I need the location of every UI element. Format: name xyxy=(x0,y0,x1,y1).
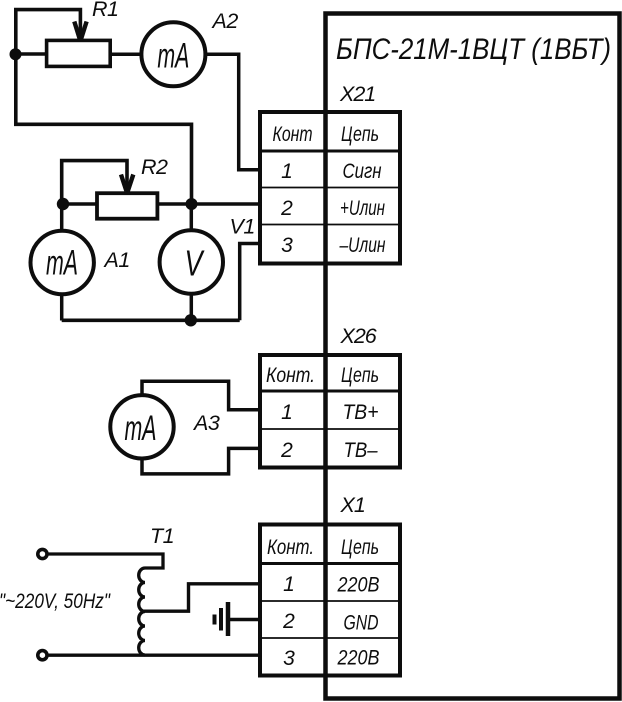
X21 net Сигн xyxy=(343,160,382,183)
X1 pin 3 xyxy=(283,647,295,670)
wire to X21 pin3 xyxy=(240,244,262,321)
wire R1 right lead xyxy=(110,53,142,57)
connector label X26 xyxy=(340,324,377,348)
wire R1 left lead xyxy=(14,52,46,56)
svg-text:Конт: Конт xyxy=(273,123,313,146)
device title БПС-21М-1ВЦТ (1ВБТ) xyxy=(336,33,611,66)
X1 net 220В xyxy=(337,574,380,597)
X21 pin 1 xyxy=(281,160,293,183)
svg-text:БПС-21М-1ВЦТ (1ВБТ): БПС-21М-1ВЦТ (1ВБТ) xyxy=(336,33,611,66)
wire ground to X1 pin2 xyxy=(228,618,262,622)
wire node C to X21 pin2 xyxy=(192,202,263,206)
svg-text:Цепь: Цепь xyxy=(341,364,379,387)
label A1 xyxy=(103,248,130,272)
svg-text:"~220V, 50Hz": "~220V, 50Hz" xyxy=(0,590,111,613)
label T1 xyxy=(150,524,174,548)
X1 net 220В row3 xyxy=(337,647,380,670)
connector label X1 xyxy=(340,493,365,517)
wire R2 wiper feed xyxy=(62,161,127,204)
connector table X26 xyxy=(260,355,400,468)
wire A1 top lead xyxy=(60,204,64,232)
wire A2 to X21 pin1 xyxy=(205,54,262,170)
wire bottom terminal to X1 pin3 xyxy=(47,654,262,657)
svg-text:3: 3 xyxy=(283,647,295,670)
X26 pin 2 xyxy=(280,439,293,462)
svg-text:2: 2 xyxy=(282,610,295,633)
label R1 xyxy=(92,0,118,21)
label A2 xyxy=(211,9,239,33)
wire A1 bottom lead xyxy=(60,293,64,321)
svg-text:R1: R1 xyxy=(92,0,118,21)
resistor R2 xyxy=(97,193,157,219)
connector label X21 xyxy=(339,82,375,106)
svg-text:mA: mA xyxy=(157,36,189,75)
resistor R1 xyxy=(47,40,111,66)
svg-text:Сигн: Сигн xyxy=(343,160,382,183)
X21 header Конт xyxy=(273,123,313,146)
svg-text:ТВ–: ТВ– xyxy=(344,439,378,462)
wire A3 to X26 pin1 xyxy=(142,381,262,410)
svg-text:Конт.: Конт. xyxy=(266,364,315,387)
svg-text:V1: V1 xyxy=(230,215,255,239)
ammeter A3 xyxy=(110,395,173,458)
X26 header Конт. xyxy=(266,364,315,387)
svg-text:A2: A2 xyxy=(211,9,239,33)
R2 wiper arrowhead xyxy=(121,175,133,192)
X1 pin 1 xyxy=(283,573,295,596)
wire T1 tap to X1 pin1 xyxy=(142,584,262,611)
label A3 xyxy=(192,411,220,435)
X1 header Цепь xyxy=(341,536,379,559)
connector table X21 xyxy=(260,112,400,264)
device box БПС-21М-1ВЦТ xyxy=(326,14,620,699)
X21 net -Uлин xyxy=(339,234,386,257)
svg-text:220В: 220В xyxy=(337,574,380,597)
wire top terminal to T1 xyxy=(48,554,163,568)
node left of R1 xyxy=(10,48,22,60)
svg-text:mA: mA xyxy=(46,243,78,282)
wire V1 top lead xyxy=(190,204,194,232)
svg-text:X26: X26 xyxy=(340,324,377,348)
X26 net ТВ+ xyxy=(343,401,379,424)
node B xyxy=(57,198,69,210)
svg-text:Цепь: Цепь xyxy=(341,123,379,146)
svg-text:2: 2 xyxy=(280,439,293,462)
terminal input bottom xyxy=(38,651,47,660)
svg-text:X21: X21 xyxy=(339,82,375,106)
connector table X1 xyxy=(260,525,400,676)
ammeter A2 xyxy=(141,22,205,86)
svg-text:GND: GND xyxy=(344,612,379,635)
svg-text:Цепь: Цепь xyxy=(341,536,379,559)
svg-text:R2: R2 xyxy=(141,155,168,179)
terminal input top xyxy=(38,549,47,558)
svg-text:+Uлин: +Uлин xyxy=(340,197,385,220)
transformer T1 winding xyxy=(139,568,145,655)
svg-text:V: V xyxy=(185,242,205,283)
X21 net +Uлин xyxy=(340,197,385,220)
X1 header Конт. xyxy=(267,536,314,559)
ground symbol xyxy=(215,602,229,636)
node D bottom junction xyxy=(185,314,197,326)
wire R2 left lead xyxy=(63,202,97,206)
wire A3 to X26 pin2 xyxy=(142,448,262,474)
label R2 xyxy=(141,155,168,179)
svg-text:ТВ+: ТВ+ xyxy=(343,401,379,424)
label V1 xyxy=(230,215,255,239)
wire R1 wiper feed xyxy=(16,10,81,54)
X26 header Цепь xyxy=(341,364,379,387)
svg-text:2: 2 xyxy=(280,197,293,220)
voltmeter V1 xyxy=(160,230,223,293)
svg-text:–Uлин: –Uлин xyxy=(339,234,386,257)
X21 pin 2 xyxy=(280,197,293,220)
ammeter A1 xyxy=(31,231,94,294)
X21 header Цепь xyxy=(341,123,379,146)
svg-text:A3: A3 xyxy=(192,411,220,435)
svg-text:A1: A1 xyxy=(103,248,130,272)
X1 pin 2 xyxy=(282,610,295,633)
svg-text:1: 1 xyxy=(283,573,295,596)
node C xyxy=(186,198,198,210)
X1 net GND xyxy=(344,612,379,635)
wire R2 right lead xyxy=(158,202,192,206)
X26 pin 1 xyxy=(281,401,293,424)
R1 wiper arrowhead xyxy=(74,22,86,39)
wire bottom rail xyxy=(62,318,240,322)
wire V1 bottom lead xyxy=(190,292,194,321)
svg-text:X1: X1 xyxy=(340,493,365,517)
svg-text:T1: T1 xyxy=(150,524,174,548)
X21 pin 3 xyxy=(281,234,293,257)
X26 net ТВ- xyxy=(344,439,378,462)
svg-text:1: 1 xyxy=(281,401,293,424)
wire left branch down xyxy=(16,54,192,204)
label ~220V 50Hz xyxy=(0,590,111,613)
svg-text:mA: mA xyxy=(125,409,157,448)
svg-text:3: 3 xyxy=(281,234,293,257)
svg-text:1: 1 xyxy=(281,160,293,183)
svg-text:Конт.: Конт. xyxy=(267,536,314,559)
svg-text:220В: 220В xyxy=(337,647,380,670)
